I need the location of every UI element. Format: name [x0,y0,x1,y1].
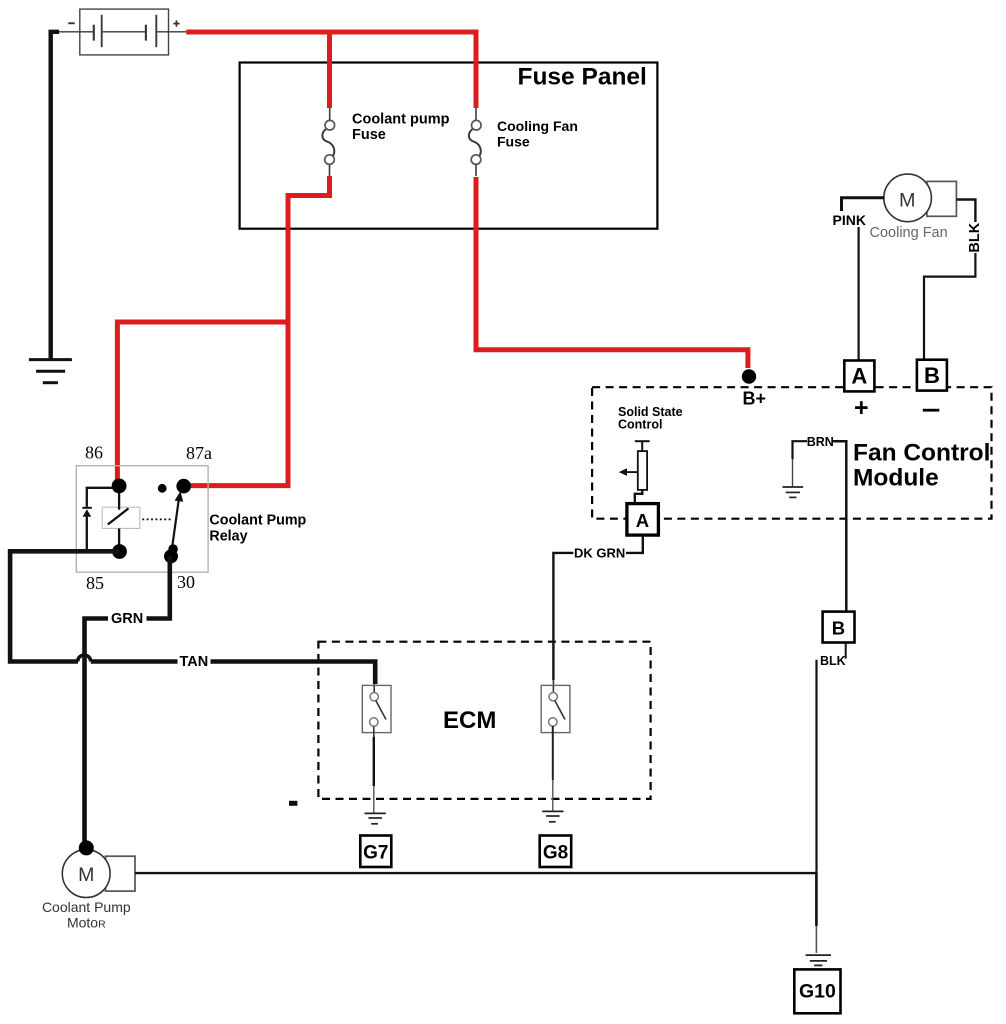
svg-text:A: A [636,510,649,531]
svg-text:Coolant pump: Coolant pump [352,112,450,128]
svg-text:BLK: BLK [967,222,983,252]
svg-text:Cooling Fan: Cooling Fan [497,118,578,134]
svg-text:Fuse Panel: Fuse Panel [518,64,647,91]
svg-text:ECM: ECM [443,707,496,734]
svg-text:Fan Control: Fan Control [853,440,990,467]
svg-text:Fuse: Fuse [352,127,386,143]
svg-text:M: M [899,189,915,211]
svg-text:PINK: PINK [833,212,866,228]
svg-text:Relay: Relay [209,529,247,545]
svg-text:TAN: TAN [180,654,209,670]
svg-text:B: B [924,363,940,388]
svg-text:G10: G10 [799,981,836,1003]
svg-text:Fuse: Fuse [497,134,530,150]
svg-text:BRN: BRN [807,435,834,449]
svg-text:87a: 87a [186,443,212,463]
svg-text:Coolant Pump: Coolant Pump [42,899,131,915]
svg-text:G7: G7 [363,842,388,863]
svg-text:86: 86 [85,443,103,463]
svg-text:B+: B+ [743,389,767,409]
svg-text:30: 30 [177,572,195,592]
svg-text:Control: Control [618,418,662,432]
svg-text:Coolant Pump: Coolant Pump [209,513,306,529]
svg-text:M: M [78,864,94,886]
svg-text:+: + [854,394,869,422]
svg-text:BLK: BLK [820,654,846,668]
svg-text:GRN: GRN [111,611,143,627]
svg-text:Module: Module [853,465,939,492]
svg-text:Cooling Fan: Cooling Fan [870,225,948,241]
svg-text:85: 85 [86,573,104,593]
svg-text:B: B [832,617,845,638]
svg-text:A: A [851,364,867,389]
svg-text:G8: G8 [543,842,568,863]
svg-text:DK GRN: DK GRN [574,546,625,561]
